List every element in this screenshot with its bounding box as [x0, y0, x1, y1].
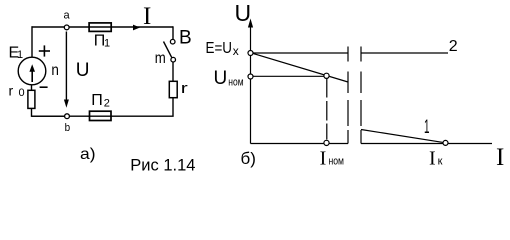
U axis — [248, 19, 253, 144]
I axis — [251, 143, 493, 145]
svg-text:ном: ном — [228, 76, 243, 88]
label U ном — [214, 68, 244, 89]
label I ном — [320, 147, 344, 169]
svg-text:a: a — [64, 10, 71, 22]
label r0 — [9, 83, 25, 100]
plus sign — [39, 45, 50, 56]
svg-text:r: r — [9, 83, 14, 99]
svg-text:1: 1 — [17, 49, 23, 61]
level line U ном — [251, 75, 327, 77]
wire right vertical top — [172, 26, 174, 39]
resistor r0 — [28, 90, 35, 108]
node I к on axis — [443, 140, 448, 145]
node operating point — [324, 73, 329, 78]
svg-text:1: 1 — [424, 117, 430, 138]
voltage source E1 — [18, 57, 46, 85]
node U ном on axis — [248, 74, 253, 79]
node E=Ux on axis — [248, 51, 253, 56]
svg-text:I: I — [496, 144, 504, 171]
svg-text:I: I — [429, 147, 436, 169]
label П1 — [94, 33, 110, 50]
svg-text:b: b — [65, 122, 71, 134]
svg-text:В: В — [179, 28, 192, 49]
svg-text:а): а) — [80, 146, 96, 163]
wire source to r0 — [31, 85, 33, 91]
wire top horizontal — [32, 26, 174, 28]
svg-text:U: U — [214, 68, 228, 89]
svg-text:m: m — [155, 50, 166, 67]
line 1 — [252, 53, 446, 143]
node b — [65, 114, 70, 119]
wire left vertical — [31, 26, 33, 57]
svg-text:n: n — [51, 62, 59, 79]
svg-text:0: 0 — [19, 87, 25, 99]
line 2 — [253, 52, 449, 54]
label П2 — [91, 92, 110, 110]
fuse П2 — [90, 111, 112, 120]
svg-text:U: U — [76, 60, 90, 81]
svg-text:E=U: E=U — [206, 40, 233, 57]
svg-text:r: r — [181, 80, 188, 97]
voltage arrow U — [64, 32, 69, 108]
current arrow I — [133, 25, 140, 31]
label E=Ux — [206, 40, 239, 58]
label E1 — [9, 45, 24, 62]
wire switch to r — [172, 62, 174, 81]
wire bottom-left corner — [32, 108, 68, 116]
break dashed line left — [347, 47, 349, 144]
svg-text:П: П — [91, 92, 103, 109]
svg-text:б): б) — [241, 149, 256, 168]
svg-text:Рис 1.14: Рис 1.14 — [130, 156, 195, 174]
node a — [64, 25, 69, 30]
resistor r — [169, 81, 177, 97]
svg-text:к: к — [438, 155, 443, 167]
break dashed line right — [360, 47, 362, 144]
node I ном on axis — [324, 140, 329, 145]
label I к — [429, 147, 443, 169]
svg-text:1: 1 — [104, 38, 110, 50]
svg-text:2: 2 — [104, 98, 110, 110]
svg-text:х: х — [233, 44, 239, 58]
dashed line I ном — [326, 79, 328, 141]
svg-text:2: 2 — [449, 38, 458, 55]
svg-text:I: I — [143, 3, 151, 30]
svg-text:I: I — [320, 147, 327, 169]
svg-text:ном: ном — [329, 155, 345, 167]
wire r to bottom — [32, 98, 174, 117]
switch B — [164, 39, 176, 62]
fuse П1 — [89, 23, 111, 32]
minus sign — [40, 86, 48, 88]
svg-text:U: U — [235, 0, 252, 26]
